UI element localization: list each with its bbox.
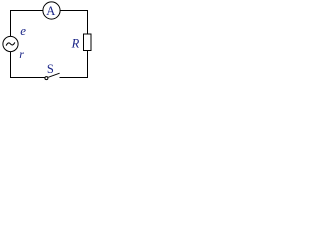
wire top-right (ammeter to corner, down to resistor) <box>61 11 88 34</box>
svg-text:R: R <box>71 36 80 50</box>
wire bottom-left (switch to corner up to source) <box>11 52 45 78</box>
ammeter A1 circle <box>43 2 60 19</box>
wire right-bottom (resistor to corner to switch) <box>60 51 88 78</box>
resistor R rectangle <box>84 34 92 51</box>
switch S lever <box>48 73 59 77</box>
svg-text:S: S <box>47 62 54 76</box>
switch S hinge circle <box>45 77 48 80</box>
svg-text:e: e <box>20 23 26 38</box>
AC source circle <box>3 36 18 51</box>
svg-text:A: A <box>46 4 55 18</box>
AC source sine wave <box>6 42 15 45</box>
svg-text:r: r <box>19 47 24 61</box>
wire top-left (corner to ammeter) <box>11 11 43 37</box>
